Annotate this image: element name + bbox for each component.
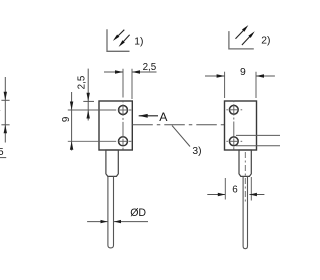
icon 1 corner bbox=[107, 29, 130, 51]
left sensor hole top bbox=[119, 106, 128, 115]
svg-text:,5: ,5 bbox=[0, 147, 4, 158]
dim 9 top right: extension lines bbox=[224, 72, 226, 98]
svg-text:9: 9 bbox=[240, 67, 246, 78]
right sensor body bbox=[225, 101, 257, 150]
svg-text:6: 6 bbox=[232, 185, 238, 196]
dim 2,5 left vertical bbox=[87, 69, 89, 121]
dim 9 left vertical bbox=[71, 92, 73, 151]
hole tangent line lower bbox=[236, 145, 280, 147]
svg-text:9: 9 bbox=[61, 117, 72, 122]
dim 9 top right: dimension line bbox=[205, 75, 225, 77]
svg-text:3): 3) bbox=[192, 146, 201, 157]
svg-text:2,5: 2,5 bbox=[143, 62, 157, 73]
hole bottom centerline bbox=[68, 140, 116, 142]
svg-text:A: A bbox=[159, 110, 168, 124]
dim 6: dimension line bbox=[207, 194, 225, 196]
right sensor vertical centerline bbox=[233, 101, 235, 103]
left partial dimension line bbox=[4, 77, 6, 143]
beam axis bbox=[132, 124, 224, 126]
right hole bottom centerline bbox=[226, 140, 228, 142]
icon 2 arrow b bbox=[242, 37, 250, 45]
svg-text:14,5: 14,5 bbox=[0, 103, 2, 123]
left sensor body bbox=[99, 101, 132, 150]
leader 3) bbox=[172, 126, 190, 147]
left sensor vertical centerline bbox=[122, 100, 124, 102]
right sensor cable bbox=[243, 176, 247, 248]
right sensor hole top bbox=[229, 105, 238, 114]
right sensor hole bottom bbox=[229, 137, 238, 146]
icon 2 arrow a bbox=[236, 31, 244, 39]
left sensor collar bbox=[106, 150, 118, 176]
right sensor collar bbox=[239, 150, 251, 176]
svg-text:2): 2) bbox=[261, 36, 270, 47]
left sensor cable bbox=[108, 176, 114, 248]
icon 2 corner bbox=[229, 31, 254, 49]
svg-text:ØD: ØD bbox=[130, 207, 146, 219]
dim 2,5 top: extension lines bbox=[122, 69, 124, 98]
icon 1 arrow a bbox=[118, 30, 124, 36]
icon 1 arrow b bbox=[124, 35, 130, 42]
right hole top centerline bbox=[226, 109, 228, 111]
dim 6: extension lines bbox=[224, 178, 226, 200]
svg-text:2,5: 2,5 bbox=[77, 75, 88, 89]
collar centerline bbox=[244, 152, 246, 203]
hole tangent line upper bbox=[236, 134, 280, 136]
hole top centerline bbox=[68, 109, 116, 111]
dim 2,5 top: dimension line bbox=[104, 71, 123, 73]
svg-text:1): 1) bbox=[134, 36, 143, 47]
dim OD bbox=[87, 221, 107, 223]
left sensor hole bottom bbox=[119, 137, 128, 146]
view arrow A bbox=[139, 115, 158, 117]
